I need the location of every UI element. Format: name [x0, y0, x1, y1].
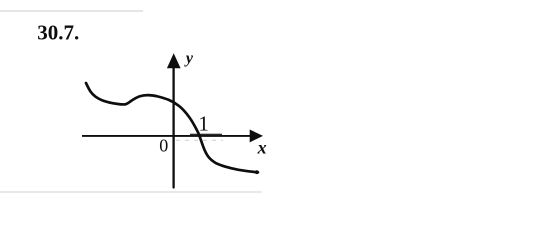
svg-text:30.7.: 30.7. [37, 21, 79, 45]
scan artifact: thickened axis patch right of origin [190, 134, 222, 136]
svg-text:y: y [184, 50, 194, 67]
x-axis [82, 135, 251, 137]
function curve [86, 83, 258, 172]
y-axis arrowhead [167, 53, 181, 68]
x-axis arrowhead [250, 130, 263, 143]
svg-text:1: 1 [198, 112, 209, 136]
svg-text:x: x [257, 138, 267, 158]
scan artifact: faint top rule [0, 10, 143, 12]
y-axis [172, 64, 174, 188]
ink blob at curve end [255, 170, 259, 174]
scan artifact: faint bottom rule [0, 191, 262, 193]
svg-text:0: 0 [159, 136, 168, 156]
scan artifact: faint dashes under x-axis [176, 139, 223, 141]
